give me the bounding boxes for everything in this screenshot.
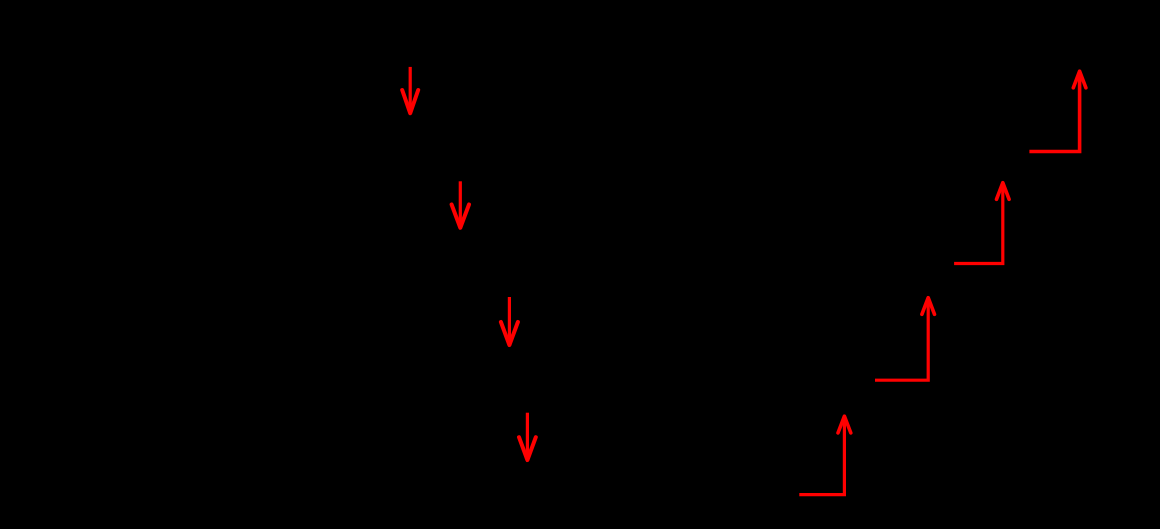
down arrow A4 <box>519 413 536 460</box>
down arrow A3 <box>501 297 518 345</box>
step arrow S4 <box>1029 71 1086 151</box>
down arrow A1 <box>402 67 418 113</box>
step arrow S3 <box>954 183 1009 264</box>
step arrow S2 <box>875 298 935 381</box>
step arrow S1 <box>799 416 851 494</box>
down arrow A2 <box>452 181 469 228</box>
